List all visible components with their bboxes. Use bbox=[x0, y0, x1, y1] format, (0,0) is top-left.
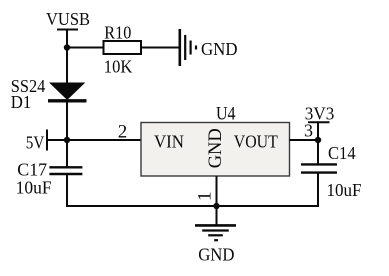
ground GND (bottom) bbox=[195, 225, 236, 264]
svg-text:R10: R10 bbox=[104, 23, 131, 43]
capacitor C17 bbox=[16, 159, 83, 197]
wire 3V3 to C14 bbox=[317, 122, 319, 164]
power port 5V bbox=[26, 130, 47, 153]
node C junction bbox=[315, 137, 321, 143]
svg-text:C17: C17 bbox=[17, 159, 47, 179]
svg-text:GND: GND bbox=[198, 244, 234, 264]
svg-text:2: 2 bbox=[118, 122, 128, 143]
resistor R10 bbox=[104, 23, 142, 77]
svg-text:U4: U4 bbox=[216, 104, 236, 125]
svg-text:VOUT: VOUT bbox=[234, 131, 278, 151]
svg-text:VUSB: VUSB bbox=[46, 9, 90, 29]
svg-text:10uF: 10uF bbox=[16, 178, 52, 198]
wire U4 GND pin to rail bbox=[216, 176, 218, 225]
wire node A to R10 bbox=[67, 47, 104, 49]
node A junction bbox=[64, 44, 70, 50]
power port VUSB bbox=[46, 9, 90, 30]
wire C14 to bottom rail bbox=[317, 173, 319, 207]
node D junction bbox=[213, 203, 219, 209]
ground GND (right, rotated) bbox=[180, 29, 238, 66]
wire node A to diode bbox=[66, 48, 68, 84]
wire U4 VOUT to node C bbox=[290, 139, 319, 141]
wire VUSB to node A bbox=[66, 30, 68, 48]
svg-text:D1: D1 bbox=[11, 92, 32, 112]
svg-text:5V: 5V bbox=[26, 132, 45, 152]
node B junction bbox=[64, 137, 70, 143]
svg-text:10uF: 10uF bbox=[327, 180, 362, 200]
svg-text:3V3: 3V3 bbox=[305, 104, 335, 124]
wire 5V to U4 VIN bbox=[47, 139, 141, 141]
power port 3V3 bbox=[305, 104, 335, 124]
svg-text:VIN: VIN bbox=[154, 131, 184, 151]
svg-text:GND: GND bbox=[201, 39, 238, 59]
svg-text:1: 1 bbox=[195, 192, 216, 202]
op-amp U4 (regulator box) bbox=[141, 104, 290, 176]
wire diode to node B bbox=[66, 100, 68, 167]
wire bottom rail bbox=[66, 205, 319, 207]
svg-text:3: 3 bbox=[304, 121, 313, 141]
wire C17 to bottom rail bbox=[66, 174, 68, 207]
capacitor C14 bbox=[301, 143, 362, 200]
svg-text:C14: C14 bbox=[328, 143, 356, 163]
diode D1 SS24 bbox=[11, 76, 87, 112]
svg-text:10K: 10K bbox=[104, 57, 133, 77]
svg-text:GND: GND bbox=[206, 128, 226, 168]
wire R10 to GND bbox=[141, 47, 180, 49]
